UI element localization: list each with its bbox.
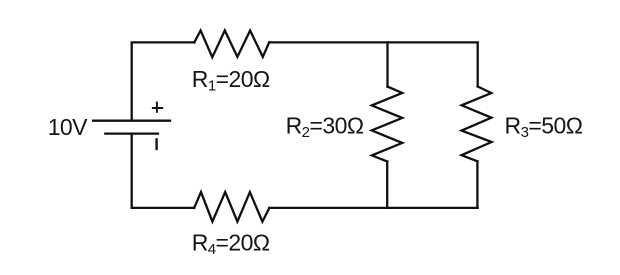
svg-text:R4=20Ω: R4=20Ω [192, 229, 270, 257]
battery - polarity mark (vertical tick) [155, 139, 157, 149]
svg-text:R3=50Ω: R3=50Ω [505, 113, 583, 141]
battery V1 positive plate (long) [93, 120, 170, 122]
wire: right rail upper segment (top-right corner down to R3) [477, 43, 479, 86]
wire: left rail upper segment (battery + terminal up to top-left corner) [131, 43, 133, 120]
resistor R1 [194, 31, 269, 58]
battery + polarity mark [152, 102, 163, 113]
resistor R3 [462, 87, 492, 162]
wire: top rail right segment [269, 41, 478, 43]
wire: bottom rail right segment [269, 207, 477, 209]
resistor R4 [194, 192, 269, 222]
svg-text:10V: 10V [48, 114, 88, 140]
wire: right rail lower segment (R3 down to bottom-right corner) [476, 161, 478, 207]
wire: R2 branch bottom (R2 down to bottom rail) [386, 162, 388, 208]
wire: top rail left segment [132, 41, 195, 43]
wire: bottom rail left segment [132, 207, 195, 209]
wire: R2 branch top (junction on top rail down to R2) [386, 42, 388, 86]
svg-text:R1=20Ω: R1=20Ω [192, 66, 270, 94]
svg-text:R2=30Ω: R2=30Ω [286, 113, 364, 141]
wire: left rail lower segment (bottom-left corner up to battery - terminal) [131, 134, 133, 208]
battery V1 negative plate (short) [105, 132, 158, 134]
resistor R2 [372, 87, 403, 162]
